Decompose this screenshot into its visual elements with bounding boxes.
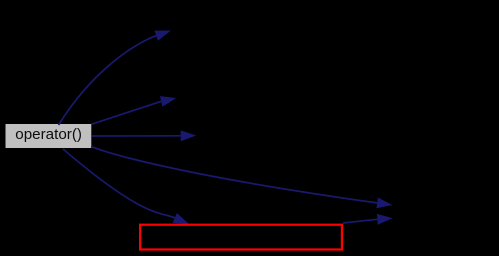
edge 6 arrowhead — [377, 214, 393, 225]
edge 3 wire — [91, 135, 181, 137]
edge 6 wire (red node to right node) — [343, 219, 377, 223]
edge 3 arrowhead — [181, 130, 197, 141]
edge 4 wire (long diagonal) — [91, 147, 377, 203]
edge 2 arrowhead — [160, 96, 176, 107]
node operator() — [6, 124, 92, 148]
edge 1 arrowhead — [154, 31, 170, 41]
edge 5 arrowhead — [173, 213, 189, 224]
edge 2 wire — [91, 101, 161, 124]
svg-text:operator(): operator() — [15, 126, 82, 143]
edge 4 arrowhead — [376, 198, 392, 209]
red node (truncated) — [140, 225, 342, 250]
edge 1 wire (operator() to top node) — [59, 36, 157, 125]
edge 5 wire (curve to red node) — [63, 149, 175, 218]
